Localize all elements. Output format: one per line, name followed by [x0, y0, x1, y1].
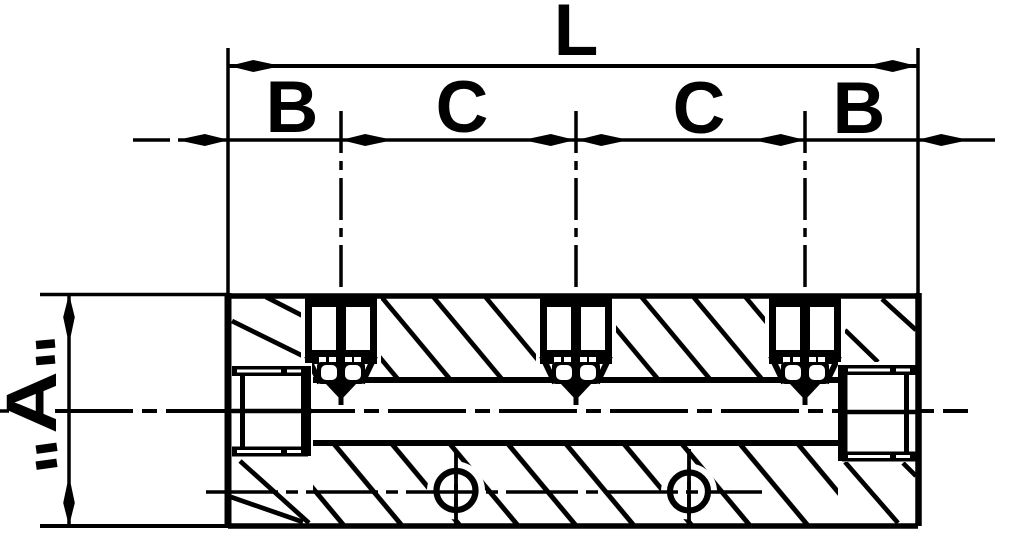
svg-text:L: L	[554, 0, 599, 71]
svg-text:C: C	[436, 67, 489, 148]
svg-text:C: C	[673, 68, 726, 149]
svg-text:B: B	[266, 67, 319, 148]
svg-text:B: B	[833, 68, 886, 149]
svg-text:A: A	[0, 371, 71, 434]
